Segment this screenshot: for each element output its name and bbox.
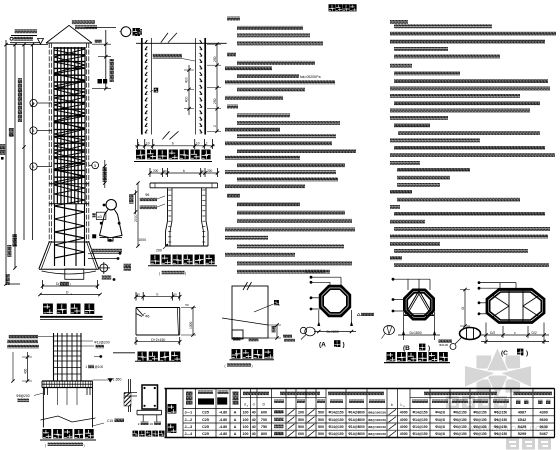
svg-text:Φ6@150: Φ6@150 — [473, 425, 486, 429]
svg-text:600: 600 — [298, 432, 304, 436]
section A right annotation — [357, 313, 374, 316]
svg-text:J—2: J—2 — [185, 418, 193, 422]
hole-top wall detail top dim — [148, 168, 219, 177]
top break marks — [161, 33, 177, 43]
svg-text:Φ8@200: Φ8@200 — [16, 394, 30, 398]
hole-top wall left labels — [140, 193, 165, 209]
svg-text:50: 50 — [137, 293, 141, 297]
watermark pinwheel logo — [465, 348, 532, 399]
svg-text:Φ8@100/150: Φ8@100/150 — [368, 418, 386, 422]
svg-text:2000: 2000 — [134, 214, 138, 222]
svg-text:Φ4@8: Φ4@8 — [435, 418, 445, 422]
section A leaders — [305, 270, 341, 311]
svg-text:400: 400 — [23, 368, 27, 374]
svg-text:5299: 5299 — [518, 432, 526, 436]
section C label (C 型) — [501, 349, 528, 357]
svg-text:Φ6@150: Φ6@150 — [453, 425, 466, 429]
svg-text:): ) — [185, 272, 186, 276]
svg-text:Φ14@150: Φ14@150 — [328, 425, 343, 429]
svg-text:): ) — [428, 345, 430, 352]
svg-text:L: L — [401, 403, 403, 407]
svg-text:400: 400 — [185, 97, 189, 103]
section B octagon ring — [404, 290, 433, 319]
svg-text:500: 500 — [298, 418, 304, 422]
svg-text:@100: @100 — [95, 365, 104, 369]
svg-text:100: 100 — [243, 425, 249, 429]
svg-text:16: 16 — [150, 422, 154, 426]
svg-text:d: d — [244, 403, 246, 407]
wall detail phi6 label — [143, 313, 150, 318]
detail bubble near B — [382, 325, 453, 346]
pile elevation dimension chain left — [4, 40, 48, 286]
svg-text:c: c — [514, 331, 516, 335]
svg-text:Φ6@150: Φ6@150 — [453, 418, 466, 422]
svg-text:800: 800 — [261, 432, 267, 436]
svg-text:700: 700 — [261, 418, 267, 422]
label 坡 — [150, 88, 158, 93]
svg-text:Φ6@150: Φ6@150 — [473, 418, 486, 422]
svg-text:5600: 5600 — [539, 418, 547, 422]
subtitle (第一节做法) — [159, 271, 186, 276]
svg-text:Φ14@8000: Φ14@8000 — [348, 411, 365, 415]
section A dim D>=1800 — [314, 310, 356, 334]
pile head triangle — [46, 25, 92, 43]
svg-text:-4.80: -4.80 — [219, 418, 227, 422]
bottom dim 110 b 110 — [135, 139, 215, 149]
svg-text:Φ6@150: Φ6@150 — [473, 411, 486, 415]
table headers — [186, 391, 552, 408]
svg-text:Φ14@150: Φ14@150 — [328, 432, 343, 436]
title 钢筋混凝土护壁 — [134, 150, 212, 162]
title 孔顶护壁大样 — [148, 255, 217, 266]
watermark gray text rows — [446, 396, 551, 450]
svg-text:fak=0520KPa: fak=0520KPa — [300, 75, 321, 79]
notes column 1 latin overlays — [262, 29, 263, 31]
svg-text:1: 1 — [206, 142, 208, 146]
svg-text:4: 4 — [33, 129, 35, 133]
detail bubble near A — [283, 327, 315, 342]
table label 桩表 — [168, 404, 177, 433]
svg-text:Φ14@150: Φ14@150 — [412, 425, 427, 429]
svg-text:4000: 4000 — [400, 418, 408, 422]
svg-text:): ) — [526, 350, 528, 357]
svg-text:A: A — [234, 432, 237, 436]
svg-text:D+2×150: D+2×150 — [151, 338, 165, 342]
svg-text:): ) — [70, 282, 71, 286]
svg-text:Φ6@150: Φ6@150 — [494, 411, 507, 415]
dim under bell D1 — [38, 291, 101, 297]
svg-text:200: 200 — [156, 249, 162, 253]
svg-text:500: 500 — [318, 432, 324, 436]
svg-text:750: 750 — [261, 425, 267, 429]
svg-text:50: 50 — [185, 303, 189, 307]
svg-text:D≥1800: D≥1800 — [327, 330, 339, 334]
pile rebar cage lower sparse section — [55, 204, 85, 266]
section A octagon ring — [320, 286, 350, 316]
notes column 1 — [225, 17, 356, 274]
svg-text:): ) — [343, 342, 345, 349]
svg-text:250: 250 — [213, 98, 217, 104]
svg-text:2: 2 — [213, 125, 217, 127]
svg-text:(A: (A — [319, 342, 326, 349]
svg-text:-4.80: -4.80 — [219, 432, 227, 436]
svg-text:-4.80: -4.80 — [219, 425, 227, 429]
bell geometry flask detail — [92, 200, 122, 242]
tip small box — [232, 330, 243, 341]
subtitle (承载力分层示意) — [225, 363, 253, 368]
svg-text:J—1: J—1 — [185, 411, 193, 415]
bell sump box — [65, 269, 84, 279]
title 桩身截面形式 — [384, 352, 450, 363]
svg-text:4000: 4000 — [400, 425, 408, 429]
svg-text:Φ14@8000: Φ14@8000 — [348, 432, 365, 436]
svg-text:Φ6@150: Φ6@150 — [473, 432, 486, 436]
subtitle (截桩构造做法) — [45, 443, 85, 448]
wall detail top dim — [134, 292, 181, 301]
svg-text:): ) — [84, 443, 85, 447]
bottom break marks — [162, 131, 178, 139]
svg-text:600: 600 — [261, 411, 267, 415]
svg-text:C25: C25 — [202, 411, 209, 415]
svg-text:40: 40 — [252, 425, 256, 429]
svg-text:1:1: 1:1 — [10, 132, 14, 137]
svg-text:4000: 4000 — [400, 411, 408, 415]
svg-text:1: 1 — [85, 365, 87, 369]
svg-text:500: 500 — [298, 425, 304, 429]
beam section rect — [142, 385, 158, 409]
title 护壁大样 — [135, 352, 181, 362]
svg-text:40: 40 — [252, 411, 256, 415]
pile top cap bars — [42, 381, 93, 395]
flask labels — [92, 190, 146, 242]
pile top level label 桩顶标高 / C15素砼护壁 — [10, 29, 44, 44]
svg-text:A: A — [234, 411, 237, 415]
right dim chain wall — [207, 43, 221, 134]
svg-text:d: d — [253, 403, 255, 407]
svg-text:4: 4 — [33, 102, 35, 106]
svg-text:200: 200 — [207, 169, 213, 173]
svg-text:C25: C25 — [202, 425, 209, 429]
svg-text:J—4: J—4 — [185, 432, 193, 436]
pile body below cap — [41, 388, 96, 428]
svg-text:200: 200 — [298, 411, 304, 415]
stray leader line left of title — [113, 352, 135, 354]
svg-text:-1.650: -1.650 — [112, 377, 122, 381]
svg-text:4000: 4000 — [400, 432, 408, 436]
svg-text:Φ8@100/150: Φ8@100/150 — [368, 425, 386, 429]
svg-text:Φ14@8000: Φ14@8000 — [348, 425, 365, 429]
svg-text:9630: 9630 — [539, 425, 547, 429]
svg-text:Φ6@150: Φ6@150 — [494, 432, 507, 436]
svg-text:Φ8@100/150: Φ8@100/150 — [368, 411, 386, 415]
section B leaders — [392, 278, 430, 313]
svg-text:200: 200 — [153, 169, 159, 173]
rebar callout bubbles 4 5 6 — [30, 99, 52, 170]
vertical dim texts L=9000 桩长 — [6, 78, 23, 285]
pile top right labels — [81, 340, 121, 382]
right-of-pile dim chain top — [92, 30, 114, 90]
svg-text:Φ6: Φ6 — [145, 314, 150, 318]
hole-top wall flange — [150, 183, 218, 188]
svg-text:1: 1 — [138, 142, 140, 146]
svg-text:5: 5 — [94, 164, 96, 168]
C15 cushion label — [93, 419, 125, 426]
title 桩端大样 — [230, 349, 275, 360]
notes column 2 — [390, 20, 556, 267]
svg-text:D≥1800: D≥1800 — [410, 331, 422, 335]
svg-text:5425: 5425 — [518, 425, 526, 429]
svg-text:C25: C25 — [202, 432, 209, 436]
pile top detail column — [54, 333, 82, 381]
svg-text:b: b — [391, 403, 393, 407]
svg-text:4987: 4987 — [518, 411, 526, 415]
pile top left note 3 lines — [7, 335, 53, 348]
svg-text:-4.80: -4.80 — [219, 411, 227, 415]
pile table grid — [165, 389, 555, 438]
svg-text:250: 250 — [213, 56, 217, 62]
svg-text:Φ14@150: Φ14@150 — [412, 432, 427, 436]
svg-text:Φ6@150: Φ6@150 — [494, 418, 507, 422]
svg-text:(B: (B — [403, 345, 410, 352]
section B inner triangle — [405, 291, 434, 316]
svg-text:1000: 1000 — [189, 321, 193, 329]
table data rows — [185, 410, 548, 436]
left margin level text — [0, 144, 5, 160]
bearing layer label — [249, 338, 259, 342]
svg-text:b: b — [172, 142, 174, 146]
svg-text:10: 10 — [196, 142, 200, 146]
svg-text:40: 40 — [252, 418, 256, 422]
crossed circle symbol — [98, 262, 115, 281]
sheet title 桩基说明 — [329, 4, 336, 11]
svg-text:2: 2 — [138, 422, 140, 426]
beam bottom text — [138, 422, 161, 426]
table slash cells — [288, 409, 397, 436]
svg-text:Φ6@150: Φ6@150 — [453, 432, 466, 436]
svg-text:Φ14@8000: Φ14@8000 — [348, 418, 365, 422]
beam detail title 地基梁做法 — [133, 431, 139, 437]
svg-text:b: b — [183, 169, 185, 173]
svg-text:Φ14@150: Φ14@150 — [412, 411, 427, 415]
pile tip detail square — [232, 282, 268, 338]
pile top left dim 400 — [11, 352, 32, 383]
section C inner lines — [493, 290, 539, 322]
pile head rebar label — [72, 20, 116, 29]
svg-text:A: A — [234, 425, 237, 429]
section B label (B 型) — [403, 344, 430, 352]
svg-text:Φ4@8: Φ4@8 — [435, 411, 445, 415]
svg-text:100: 100 — [243, 411, 249, 415]
pile bottom level leader — [88, 249, 131, 271]
inner dim 400 400 — [184, 65, 194, 115]
ground top line — [136, 42, 227, 44]
svg-text:b: b — [157, 293, 159, 297]
section A label (A 型) — [319, 340, 345, 348]
mid-depth callout circle right — [89, 160, 107, 188]
svg-text:40: 40 — [252, 432, 256, 436]
svg-text:Φ2100: Φ2100 — [439, 343, 448, 347]
svg-text:Φ12@200: Φ12@200 — [94, 340, 110, 344]
dim under bell D — [41, 280, 99, 289]
pile shaft walls — [49, 43, 89, 242]
svg-text:500: 500 — [318, 418, 324, 422]
svg-text:Φ14@150: Φ14@150 — [328, 418, 343, 422]
pile bell bottom — [39, 242, 99, 274]
svg-text:Φ14@150: Φ14@150 — [412, 418, 427, 422]
svg-text:): ) — [252, 364, 253, 368]
svg-text:500: 500 — [318, 411, 324, 415]
svg-text:D/2: D/2 — [490, 331, 495, 335]
svg-text:J—3: J—3 — [185, 425, 193, 429]
svg-text:Φ14@150: Φ14@150 — [328, 411, 343, 415]
svg-text:C25: C25 — [202, 418, 209, 422]
section C left dim D — [460, 288, 470, 328]
section B dim D>=1800 — [398, 312, 440, 340]
svg-text:5467: 5467 — [539, 432, 547, 436]
svg-text:100: 100 — [243, 418, 249, 422]
svg-text:Φ4@8: Φ4@8 — [435, 432, 445, 436]
beam detail left wall — [124, 379, 137, 412]
section C elongated octagon — [487, 290, 544, 323]
section C leaders — [478, 281, 532, 315]
ground line small text — [95, 39, 102, 42]
tip right dim — [268, 323, 281, 339]
svg-text:10: 10 — [146, 142, 150, 146]
wall detail right dims — [181, 303, 196, 337]
beam support bar — [137, 410, 162, 421]
svg-text:50: 50 — [201, 169, 205, 173]
svg-text:6542: 6542 — [518, 418, 526, 422]
svg-text:Φ8@100/150: Φ8@100/150 — [368, 432, 386, 436]
label 150厚C15素砼 — [153, 54, 195, 61]
retaining wall section 钢筋混凝土护壁 walls — [142, 38, 205, 135]
svg-text:400: 400 — [185, 77, 189, 83]
wall detail bottom dim D+2x150 — [134, 337, 181, 345]
svg-text:4: 4 — [33, 165, 35, 169]
wall detail body — [136, 308, 180, 336]
hole-top wall cup walls — [166, 188, 209, 246]
svg-text:A: A — [234, 418, 237, 422]
rock layer line — [222, 318, 268, 325]
title 桩顶大样图 — [40, 429, 96, 440]
svg-text:≥D: ≥D — [98, 215, 103, 219]
pile rebar cage dense section — [49, 47, 89, 206]
svg-text:D/2: D/2 — [532, 331, 537, 335]
svg-text:500: 500 — [318, 425, 324, 429]
svg-text:50: 50 — [164, 169, 168, 173]
pile top bottom-left labels — [16, 393, 43, 402]
svg-text:1000: 1000 — [138, 238, 146, 242]
hole-top wall bottom label 200 — [156, 244, 168, 253]
pile tip 桩 label — [254, 300, 280, 312]
title 桩身大样 — [40, 304, 103, 320]
detail bubble near C — [450, 328, 481, 350]
svg-text:50: 50 — [173, 293, 177, 297]
hole-top wall left dim 2000 — [134, 181, 140, 247]
section C bottom dims — [481, 323, 549, 345]
section callout circle 2配 — [120, 27, 143, 37]
svg-text:Φ6: Φ6 — [145, 193, 150, 197]
svg-text:Φ6@150: Φ6@150 — [494, 425, 507, 429]
svg-text:Φ6@150: Φ6@150 — [453, 411, 466, 415]
svg-text:4300: 4300 — [539, 411, 547, 415]
svg-text:100: 100 — [243, 432, 249, 436]
svg-text:Φ4@8: Φ4@8 — [435, 425, 445, 429]
svg-text:C15: C15 — [107, 419, 113, 423]
